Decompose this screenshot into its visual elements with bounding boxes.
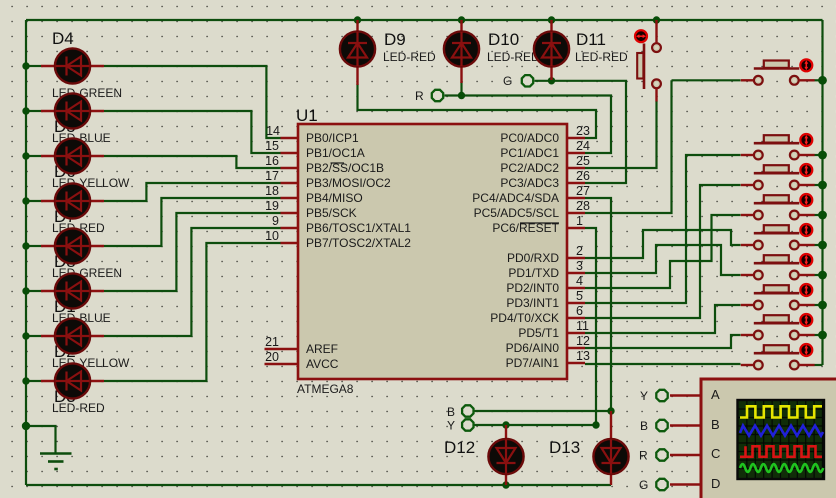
node B terminal xyxy=(447,405,473,419)
svg-text:PD5/T1: PD5/T1 xyxy=(518,326,559,340)
svg-text:A: A xyxy=(711,387,720,402)
wire button8 to pin12 xyxy=(585,335,741,348)
LED D9 (LED-RED) xyxy=(340,20,436,85)
wire button1 to pin28 xyxy=(672,79,741,81)
wire LED row6 to pin19 xyxy=(26,290,41,292)
svg-text:D12: D12 xyxy=(444,438,475,457)
svg-text:23: 23 xyxy=(576,124,590,138)
LED D5 (LED-BLUE) xyxy=(41,93,111,145)
svg-text:21: 21 xyxy=(265,335,279,349)
svg-text:D4: D4 xyxy=(52,29,74,48)
svg-text:19: 19 xyxy=(265,199,279,213)
wire net G terminal to pin26 xyxy=(535,81,627,183)
wire button7 to pin11 xyxy=(585,305,741,333)
junction node B at D13 xyxy=(607,407,614,414)
svg-text:PC5/ADC5/SCL: PC5/ADC5/SCL xyxy=(474,206,560,220)
wire top rail xyxy=(26,19,823,21)
wire net R terminal to pin24 xyxy=(445,96,612,154)
svg-text:13: 13 xyxy=(576,349,590,363)
svg-text:PC0/ADC0: PC0/ADC0 xyxy=(500,131,559,145)
LED D10 (LED-RED) xyxy=(444,20,540,83)
wire LED row5 to pin18 xyxy=(26,245,41,247)
LED D3 (LED-RED) xyxy=(41,363,105,415)
wire LED row3 to pin16 xyxy=(26,155,41,157)
svg-text:25: 25 xyxy=(576,154,590,168)
oscilloscope pin B stub xyxy=(670,424,701,426)
wire left bus xyxy=(25,20,27,485)
wire button5 to pin5 xyxy=(585,230,741,303)
LED D7 (LED-RED) xyxy=(41,183,105,235)
svg-text:AVCC: AVCC xyxy=(306,357,339,371)
button SW9 xyxy=(741,344,815,369)
U1 right pin numbers xyxy=(576,124,590,363)
svg-text:B: B xyxy=(640,419,648,433)
svg-text:G: G xyxy=(639,478,648,492)
svg-text:PB7/TOSC2/XTAL2: PB7/TOSC2/XTAL2 xyxy=(306,236,411,250)
wire LED D4 row to pin14 xyxy=(26,65,41,67)
svg-text:PB5/SCK: PB5/SCK xyxy=(306,206,357,220)
wire pin1 to net Y xyxy=(585,228,596,425)
svg-text:B: B xyxy=(711,417,720,432)
junction node Y at D12 xyxy=(592,421,599,428)
svg-text:PB0/ICP1: PB0/ICP1 xyxy=(306,131,359,145)
svg-text:LED-RED: LED-RED xyxy=(52,401,105,415)
wire pin27 to net B xyxy=(585,198,611,411)
svg-text:Y: Y xyxy=(447,419,455,433)
op-amp U1 ATMEGA8 chip body xyxy=(296,106,567,396)
svg-text:24: 24 xyxy=(576,139,590,153)
svg-text:D9: D9 xyxy=(384,30,406,49)
button SW3 xyxy=(741,164,815,189)
LED D4 (LED-GREEN) xyxy=(41,48,122,100)
node R terminal at scope xyxy=(639,449,668,463)
node R terminal xyxy=(415,89,443,103)
wire LED row2 to pin15 xyxy=(26,110,41,112)
wire LED row8 to pin10 xyxy=(26,380,41,382)
svg-text:D: D xyxy=(711,476,720,491)
svg-text:R: R xyxy=(639,449,648,463)
button SW8 xyxy=(741,314,815,339)
wire button9 to pin13 xyxy=(585,363,741,365)
LED D8 (LED-GREEN) xyxy=(41,228,122,280)
oscilloscope pin A stub xyxy=(670,394,701,396)
LED D13 xyxy=(549,411,629,485)
node B terminal at scope xyxy=(640,419,668,433)
svg-text:16: 16 xyxy=(265,154,279,168)
U1 right pin stubs xyxy=(567,138,585,363)
button SW1 top right xyxy=(741,59,815,84)
wire vertical button to pin25 xyxy=(585,101,657,168)
junction node G xyxy=(548,77,555,84)
wire button6 to pin6 xyxy=(585,245,741,318)
svg-text:PC1/ADC1: PC1/ADC1 xyxy=(500,146,559,160)
U1 left pin names xyxy=(306,131,411,371)
wire net Y terminal to D12 junction xyxy=(475,424,597,426)
junction top rail at D9 D10 D11 xyxy=(354,16,361,23)
svg-text:Y: Y xyxy=(640,389,648,403)
svg-text:PB2/SS/OC1B: PB2/SS/OC1B xyxy=(306,161,384,175)
oscilloscope trace C red square wave xyxy=(740,446,822,457)
LED D1 (LED-BLUE) xyxy=(41,273,111,325)
svg-text:ATMEGA8: ATMEGA8 xyxy=(297,382,354,396)
node Y terminal at scope xyxy=(640,389,668,403)
svg-text:PB1/OC1A: PB1/OC1A xyxy=(306,146,365,160)
oscilloscope pin D stub xyxy=(670,483,701,485)
svg-text:14: 14 xyxy=(266,124,280,138)
wire LED row4 to pin17 xyxy=(26,200,41,202)
junction bottom rail at D12 xyxy=(502,481,509,488)
U1 right pin names xyxy=(472,131,559,370)
svg-text:15: 15 xyxy=(265,139,279,153)
svg-text:PC4/ADC4/SDA: PC4/ADC4/SDA xyxy=(472,191,559,205)
oscilloscope trace A yellow square wave xyxy=(740,406,822,417)
node G terminal at scope xyxy=(639,478,668,492)
svg-text:1: 1 xyxy=(576,214,583,228)
svg-text:G: G xyxy=(503,74,512,88)
button SW4 xyxy=(741,194,815,219)
svg-text:PC3/ADC3: PC3/ADC3 xyxy=(500,176,559,190)
LED D6 (LED-YELLOW) xyxy=(41,138,130,190)
button SW6 xyxy=(741,254,815,279)
svg-text:PD0/RXD: PD0/RXD xyxy=(507,251,559,265)
svg-text:PD2/INT0: PD2/INT0 xyxy=(506,281,559,295)
junction top rail at vertical button xyxy=(653,16,660,23)
svg-text:PB6/TOSC1/XTAL1: PB6/TOSC1/XTAL1 xyxy=(306,221,411,235)
wire ground branch xyxy=(26,426,56,454)
svg-text:6: 6 xyxy=(576,304,583,318)
svg-text:C: C xyxy=(711,446,720,461)
svg-text:27: 27 xyxy=(576,184,590,198)
svg-text:11: 11 xyxy=(576,319,589,333)
svg-text:LED-RED: LED-RED xyxy=(487,50,540,64)
wire D9 bottom to pin23 xyxy=(358,84,597,138)
svg-text:4: 4 xyxy=(576,274,583,288)
wire button2 to pin2 xyxy=(585,155,741,258)
wire button3 to pin3 xyxy=(585,185,741,273)
wire buttons right stubs to right rail xyxy=(815,79,823,81)
svg-text:28: 28 xyxy=(576,199,590,213)
svg-text:5: 5 xyxy=(576,289,583,303)
button SW7 xyxy=(741,284,815,309)
LED D11 (LED-RED) xyxy=(534,20,628,80)
svg-text:17: 17 xyxy=(265,169,279,183)
U1 overbar on SS xyxy=(331,162,345,164)
node Y terminal xyxy=(447,419,473,433)
svg-text:PD4/T0/XCK: PD4/T0/XCK xyxy=(490,311,559,325)
oscilloscope body xyxy=(701,379,836,498)
svg-text:26: 26 xyxy=(576,169,590,183)
svg-text:U1: U1 xyxy=(296,106,318,125)
oscilloscope trace D green sine wave xyxy=(740,464,823,472)
junction LED bus rows xyxy=(22,62,29,69)
svg-text:PD1/TXD: PD1/TXD xyxy=(508,266,559,280)
wire net B terminal to D13 junction xyxy=(475,410,612,412)
U1 left pin numbers xyxy=(265,124,280,364)
ground symbol xyxy=(40,454,72,470)
svg-text:LED-RED: LED-RED xyxy=(575,50,628,64)
oscilloscope pin C stub xyxy=(670,454,701,456)
junction node R xyxy=(458,92,465,99)
svg-text:PD6/AIN0: PD6/AIN0 xyxy=(506,341,560,355)
wire button4 to pin4 xyxy=(585,215,741,288)
svg-text:3: 3 xyxy=(576,259,583,273)
node G terminal xyxy=(503,74,533,88)
svg-text:2: 2 xyxy=(576,244,583,258)
svg-text:R: R xyxy=(415,89,424,103)
svg-text:9: 9 xyxy=(272,214,279,228)
svg-text:LED-RED: LED-RED xyxy=(383,50,436,64)
svg-text:B: B xyxy=(447,405,455,419)
svg-text:D13: D13 xyxy=(549,438,580,457)
svg-text:20: 20 xyxy=(265,350,279,364)
button SW5 xyxy=(741,224,815,249)
oscilloscope screen xyxy=(738,400,825,479)
wire D10 bottom segment xyxy=(460,82,462,96)
svg-text:PB4/MISO: PB4/MISO xyxy=(306,191,363,205)
LED D2 (LED-YELLOW) xyxy=(41,318,130,370)
wire LED row7 to pin9 xyxy=(26,335,41,337)
svg-text:D11: D11 xyxy=(576,30,606,49)
svg-text:PB3/MOSI/OC2: PB3/MOSI/OC2 xyxy=(306,176,391,190)
U1 overbar on RESET xyxy=(520,222,559,224)
junction right rail button rows xyxy=(818,76,827,85)
svg-text:PC2/ADC2: PC2/ADC2 xyxy=(500,161,559,175)
LED D12 xyxy=(444,425,524,485)
svg-text:PD7/AIN1: PD7/AIN1 xyxy=(506,356,560,370)
svg-text:12: 12 xyxy=(576,334,590,348)
wire right rail xyxy=(821,20,823,365)
svg-text:AREF: AREF xyxy=(306,342,338,356)
button SW2 xyxy=(741,134,815,159)
U1 left pin stubs xyxy=(265,138,299,364)
svg-text:18: 18 xyxy=(265,184,279,198)
button SW10 vertical xyxy=(635,20,661,102)
wire bottom rail xyxy=(26,484,611,486)
svg-text:PD3/INT1: PD3/INT1 xyxy=(506,296,559,310)
junction ground tap xyxy=(22,422,30,430)
svg-text:D10: D10 xyxy=(488,30,519,49)
oscilloscope trace B blue triangle wave xyxy=(740,426,823,436)
svg-text:10: 10 xyxy=(265,229,279,243)
